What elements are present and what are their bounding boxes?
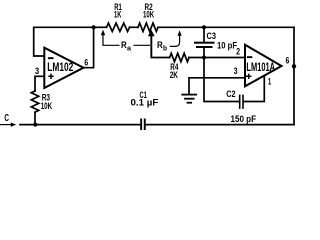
svg-text:150 pF: 150 pF <box>231 114 257 124</box>
wire R3 top to LM102 noninverting input <box>35 76 44 91</box>
wire R4 right to summing junction <box>189 57 204 59</box>
svg-text:2K: 2K <box>170 70 179 80</box>
resistor R4 <box>170 53 189 61</box>
op-amp U1 plus sign <box>48 74 53 79</box>
trim arrow Ra left terminal pointer <box>101 30 120 46</box>
wire right vertical from output node down to bottom rail <box>293 66 295 124</box>
svg-text:1: 1 <box>268 76 271 86</box>
capacitor C1 plates <box>140 119 146 131</box>
svg-text:3: 3 <box>35 66 39 76</box>
resistor R1 <box>107 23 130 31</box>
svg-text:C2: C2 <box>226 89 235 99</box>
op-amp U1 minus sign <box>48 57 54 59</box>
wire LM101A pin 3 to ground <box>189 78 245 94</box>
wire bottom rail left of C1 <box>20 124 140 126</box>
wire feedback loop LM102 output to inverting input <box>34 27 94 56</box>
wire between R1 and R2 <box>130 26 139 28</box>
svg-text:LM101A: LM101A <box>246 62 275 74</box>
capacitor C2 plates <box>239 95 244 109</box>
junction node C3 top rail tap <box>202 25 206 29</box>
svg-text:10K: 10K <box>143 10 155 20</box>
resistor R2 <box>138 23 158 31</box>
svg-text:C: C <box>4 113 9 124</box>
svg-text:LM102: LM102 <box>47 62 73 74</box>
svg-text:3: 3 <box>234 66 238 76</box>
leader Rb to right terminal arrow <box>170 34 180 46</box>
wire right vertical from top rail to LM101A output node <box>293 27 295 66</box>
svg-text:1K: 1K <box>114 10 122 20</box>
op-amp U2 LM101A <box>245 45 282 87</box>
junction node summing point <box>202 56 206 60</box>
svg-text:10K: 10K <box>41 101 53 111</box>
trim arrow Rb right terminal pointer <box>178 30 182 36</box>
svg-text:10 pF: 10 pF <box>217 41 237 51</box>
svg-text:C3: C3 <box>207 31 217 41</box>
wire R2 wiper shaft down to R4 <box>151 34 169 58</box>
wire top rail segment right of R2 <box>158 26 294 28</box>
svg-text:b: b <box>163 45 167 52</box>
wire bottom rail right of C1 <box>146 124 294 126</box>
op-amp U2 plus sign <box>246 74 251 79</box>
svg-text:0.1 µF: 0.1 µF <box>131 97 159 107</box>
wire LM102 output stub up to top rail <box>84 27 94 67</box>
ground <box>181 94 197 104</box>
junction node R3 bottom rail tap <box>33 123 37 127</box>
op-amp U1 LM102 <box>44 48 83 88</box>
potentiometer wiper arrow into R2 <box>148 30 155 58</box>
junction node at loop top <box>92 25 96 29</box>
svg-text:6: 6 <box>84 57 88 67</box>
wire summing junction down to C2 <box>204 58 239 102</box>
wire top rail segment left of R1 <box>94 26 107 28</box>
junction node LM101A output <box>292 64 296 68</box>
capacitor C3 plates <box>194 42 215 48</box>
wire summing junction to LM101A pin 2 <box>204 57 245 59</box>
capacitor C3 stem to summing junction <box>203 48 205 58</box>
input arrow <box>0 123 16 127</box>
wire C2 right plate to pin 1 <box>244 74 264 102</box>
wire R3 bottom to bottom rail <box>34 112 36 124</box>
resistor R3 <box>31 91 38 112</box>
leader Ra to wiper <box>134 44 151 46</box>
capacitor C3 stem from top rail <box>203 27 205 41</box>
op-amp U2 minus sign <box>247 56 252 58</box>
svg-text:a: a <box>127 45 131 52</box>
svg-text:6: 6 <box>286 55 290 65</box>
